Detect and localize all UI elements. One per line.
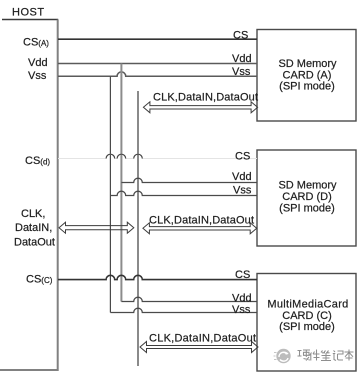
HOST box top edge	[2, 19, 58, 21]
watermark logo	[274, 349, 291, 363]
wire CS(C) host to card C with hops	[58, 275, 257, 279]
char ben (root)	[345, 350, 354, 361]
bus arrow CLK,DataIN,DataOut to card C	[140, 342, 258, 353]
svg-text:CS: CS	[233, 29, 248, 41]
svg-text:CS: CS	[235, 269, 250, 281]
svg-text:CS(d): CS(d)	[25, 155, 50, 167]
char bi (pen)	[321, 351, 331, 361]
wire Vss vertical branch	[109, 76, 111, 312]
char ying (hard)	[298, 350, 311, 361]
bus arrow host to vertical bus	[59, 222, 134, 233]
svg-text:CS(C): CS(C)	[26, 274, 53, 286]
label MultiMediaCard CARD (C)	[267, 299, 348, 334]
svg-text:SD Memory: SD Memory	[278, 180, 337, 192]
svg-text:CARD (C): CARD (C)	[282, 310, 332, 322]
wire Vss branch to card C with hop	[110, 308, 257, 312]
char ji (record)	[333, 351, 343, 361]
wire Vss host to card A with hop over Vdd branch	[58, 72, 257, 76]
svg-text:CLK,DataIN,DataOut: CLK,DataIN,DataOut	[153, 91, 258, 103]
svg-text:CLK,DataIN,DataOut: CLK,DataIN,DataOut	[149, 214, 254, 226]
svg-text:Vdd: Vdd	[232, 171, 252, 183]
MultiMediaCard CARD (C) box U3	[257, 274, 356, 372]
svg-text:CARD (A): CARD (A)	[283, 69, 332, 81]
wire CS(D) host to card D with hops	[58, 154, 257, 158]
bus arrow CLK,DataIN,DataOut to card A	[143, 102, 257, 113]
svg-text:(SPI mode): (SPI mode)	[279, 321, 335, 333]
label SD Memory CARD (A)	[278, 58, 337, 93]
svg-text:CLK,DataIN,DataOut: CLK,DataIN,DataOut	[149, 332, 256, 344]
watermark text (vector CJK approximation)	[298, 350, 354, 361]
svg-text:Vdd: Vdd	[28, 57, 48, 69]
svg-text:CARD (D): CARD (D)	[282, 191, 332, 203]
svg-text:DataIN,: DataIN,	[15, 222, 52, 234]
wire Vdd host to card A	[58, 63, 257, 65]
wire CS(A) host to card A	[58, 38, 257, 40]
svg-text:CS: CS	[235, 150, 250, 162]
char jian (piece)	[310, 350, 320, 361]
wire Vdd branch to card C with hop	[121, 297, 257, 301]
svg-text:Vss: Vss	[233, 185, 252, 197]
HOST box right and bottom edges	[0, 20, 58, 371]
wire Vss branch to card D with hops	[110, 191, 257, 195]
wire CLK/Data bus vertical	[137, 91, 139, 366]
svg-text:HOST: HOST	[12, 7, 45, 19]
svg-text:DataOut: DataOut	[14, 237, 55, 249]
svg-text:CS(A): CS(A)	[23, 37, 49, 49]
label SD Memory CARD (D)	[278, 180, 337, 215]
svg-text:Vdd: Vdd	[232, 293, 252, 305]
svg-text:(SPI mode): (SPI mode)	[279, 81, 335, 93]
host label CLK,DataIN,DataOut	[14, 208, 55, 249]
hop arcs on CS(D) darker	[106, 154, 142, 158]
bus arrow CLK,DataIN,DataOut to card D	[143, 223, 257, 234]
wire Vdd vertical branch	[120, 64, 122, 302]
SD Memory CARD (A) box U1	[257, 30, 356, 122]
svg-text:Vss: Vss	[232, 66, 251, 78]
svg-text:CLK,: CLK,	[21, 208, 45, 220]
svg-text:Vdd: Vdd	[232, 53, 252, 65]
svg-text:Vss: Vss	[232, 304, 251, 316]
svg-text:(SPI mode): (SPI mode)	[279, 202, 335, 214]
svg-text:SD Memory: SD Memory	[278, 58, 337, 70]
svg-text:MultiMediaCard: MultiMediaCard	[267, 299, 348, 311]
svg-text:Vss: Vss	[28, 70, 47, 82]
SD Memory CARD (D) box U2	[257, 150, 356, 246]
wire Vdd branch to card D with hop	[121, 178, 257, 182]
